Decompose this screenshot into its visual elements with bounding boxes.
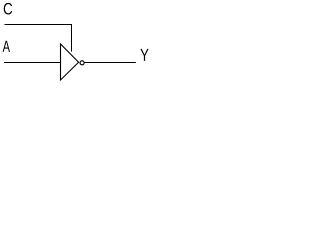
inverter U1 triangle — [61, 44, 79, 80]
wire C: horizontal then down to gate enable — [5, 25, 72, 52]
node Y label — [140, 49, 148, 61]
inverter bubble — [80, 61, 84, 65]
wire Y: output — [84, 62, 135, 64]
node C label — [4, 3, 13, 15]
node A label — [3, 41, 10, 52]
tri-state inverter schematic — [0, 0, 154, 83]
wire A: input to gate — [4, 62, 61, 64]
